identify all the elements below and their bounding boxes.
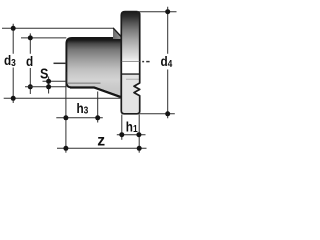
socket outline bbox=[66, 38, 121, 97]
S dimension line bbox=[48, 77, 50, 94]
svg-text:d: d bbox=[26, 53, 33, 69]
h3/z left extension line bbox=[65, 72, 67, 153]
svg-text:z: z bbox=[97, 132, 105, 149]
h3 dimension line bbox=[56, 117, 103, 119]
d4 extension line top bbox=[137, 11, 176, 13]
d4 dot bottom bbox=[165, 111, 170, 116]
socket bottom edge emphasis bbox=[70, 88, 121, 98]
label d4 bbox=[161, 53, 174, 69]
d4 dot top bbox=[165, 9, 170, 14]
z dot right bbox=[137, 146, 142, 151]
d dot top bbox=[28, 35, 33, 40]
serrated-face boundary line bbox=[126, 78, 141, 80]
h3 right extension line bbox=[97, 92, 99, 123]
z dot left bbox=[63, 146, 68, 151]
S dot top bbox=[46, 79, 51, 84]
d4 dimension line bbox=[167, 7, 169, 119]
centerline across flange bbox=[122, 61, 140, 63]
h3 dot left bbox=[63, 115, 68, 120]
label S bbox=[40, 64, 48, 81]
centerline right dot bbox=[142, 61, 144, 63]
d extension line top bbox=[21, 37, 66, 39]
S extension line bottom bbox=[25, 86, 66, 88]
svg-text:S: S bbox=[40, 64, 48, 81]
flange outline with serration bbox=[121, 12, 139, 114]
centerline left dash bbox=[54, 62, 67, 64]
flange fills bbox=[120, 10, 141, 115]
h1 dimension line bbox=[117, 134, 146, 136]
socket bore line bbox=[68, 82, 101, 84]
S extension line top bbox=[43, 80, 67, 82]
d3 dimension line bbox=[12, 24, 14, 103]
flange face line bbox=[120, 73, 141, 75]
chamfer cone of collar bbox=[113, 28, 121, 39]
label z bbox=[97, 132, 105, 149]
h3 dot right bbox=[95, 115, 100, 120]
centerline right dash bbox=[146, 61, 149, 63]
d3 extension line bottom bbox=[4, 97, 122, 99]
label h3 bbox=[77, 100, 89, 116]
d3 dot top bbox=[11, 26, 16, 31]
S dot bottom bbox=[46, 84, 51, 89]
h1/z right extension line bbox=[138, 114, 140, 153]
d4 extension line bottom bbox=[140, 113, 175, 115]
label d3 bbox=[4, 52, 16, 68]
d3 extension line top bbox=[2, 27, 113, 29]
label h1 bbox=[126, 118, 138, 134]
d dot bottom bbox=[28, 84, 33, 89]
chamfer edge line bbox=[113, 28, 121, 37]
d3 dot bottom bbox=[11, 96, 16, 101]
socket body bbox=[65, 37, 123, 99]
label d bbox=[26, 53, 33, 69]
h1 dot right bbox=[136, 132, 141, 137]
h1 left extension line bbox=[121, 115, 123, 140]
h1 dot left bbox=[119, 132, 124, 137]
d dimension line bbox=[29, 33, 31, 94]
z dimension line bbox=[57, 147, 147, 149]
